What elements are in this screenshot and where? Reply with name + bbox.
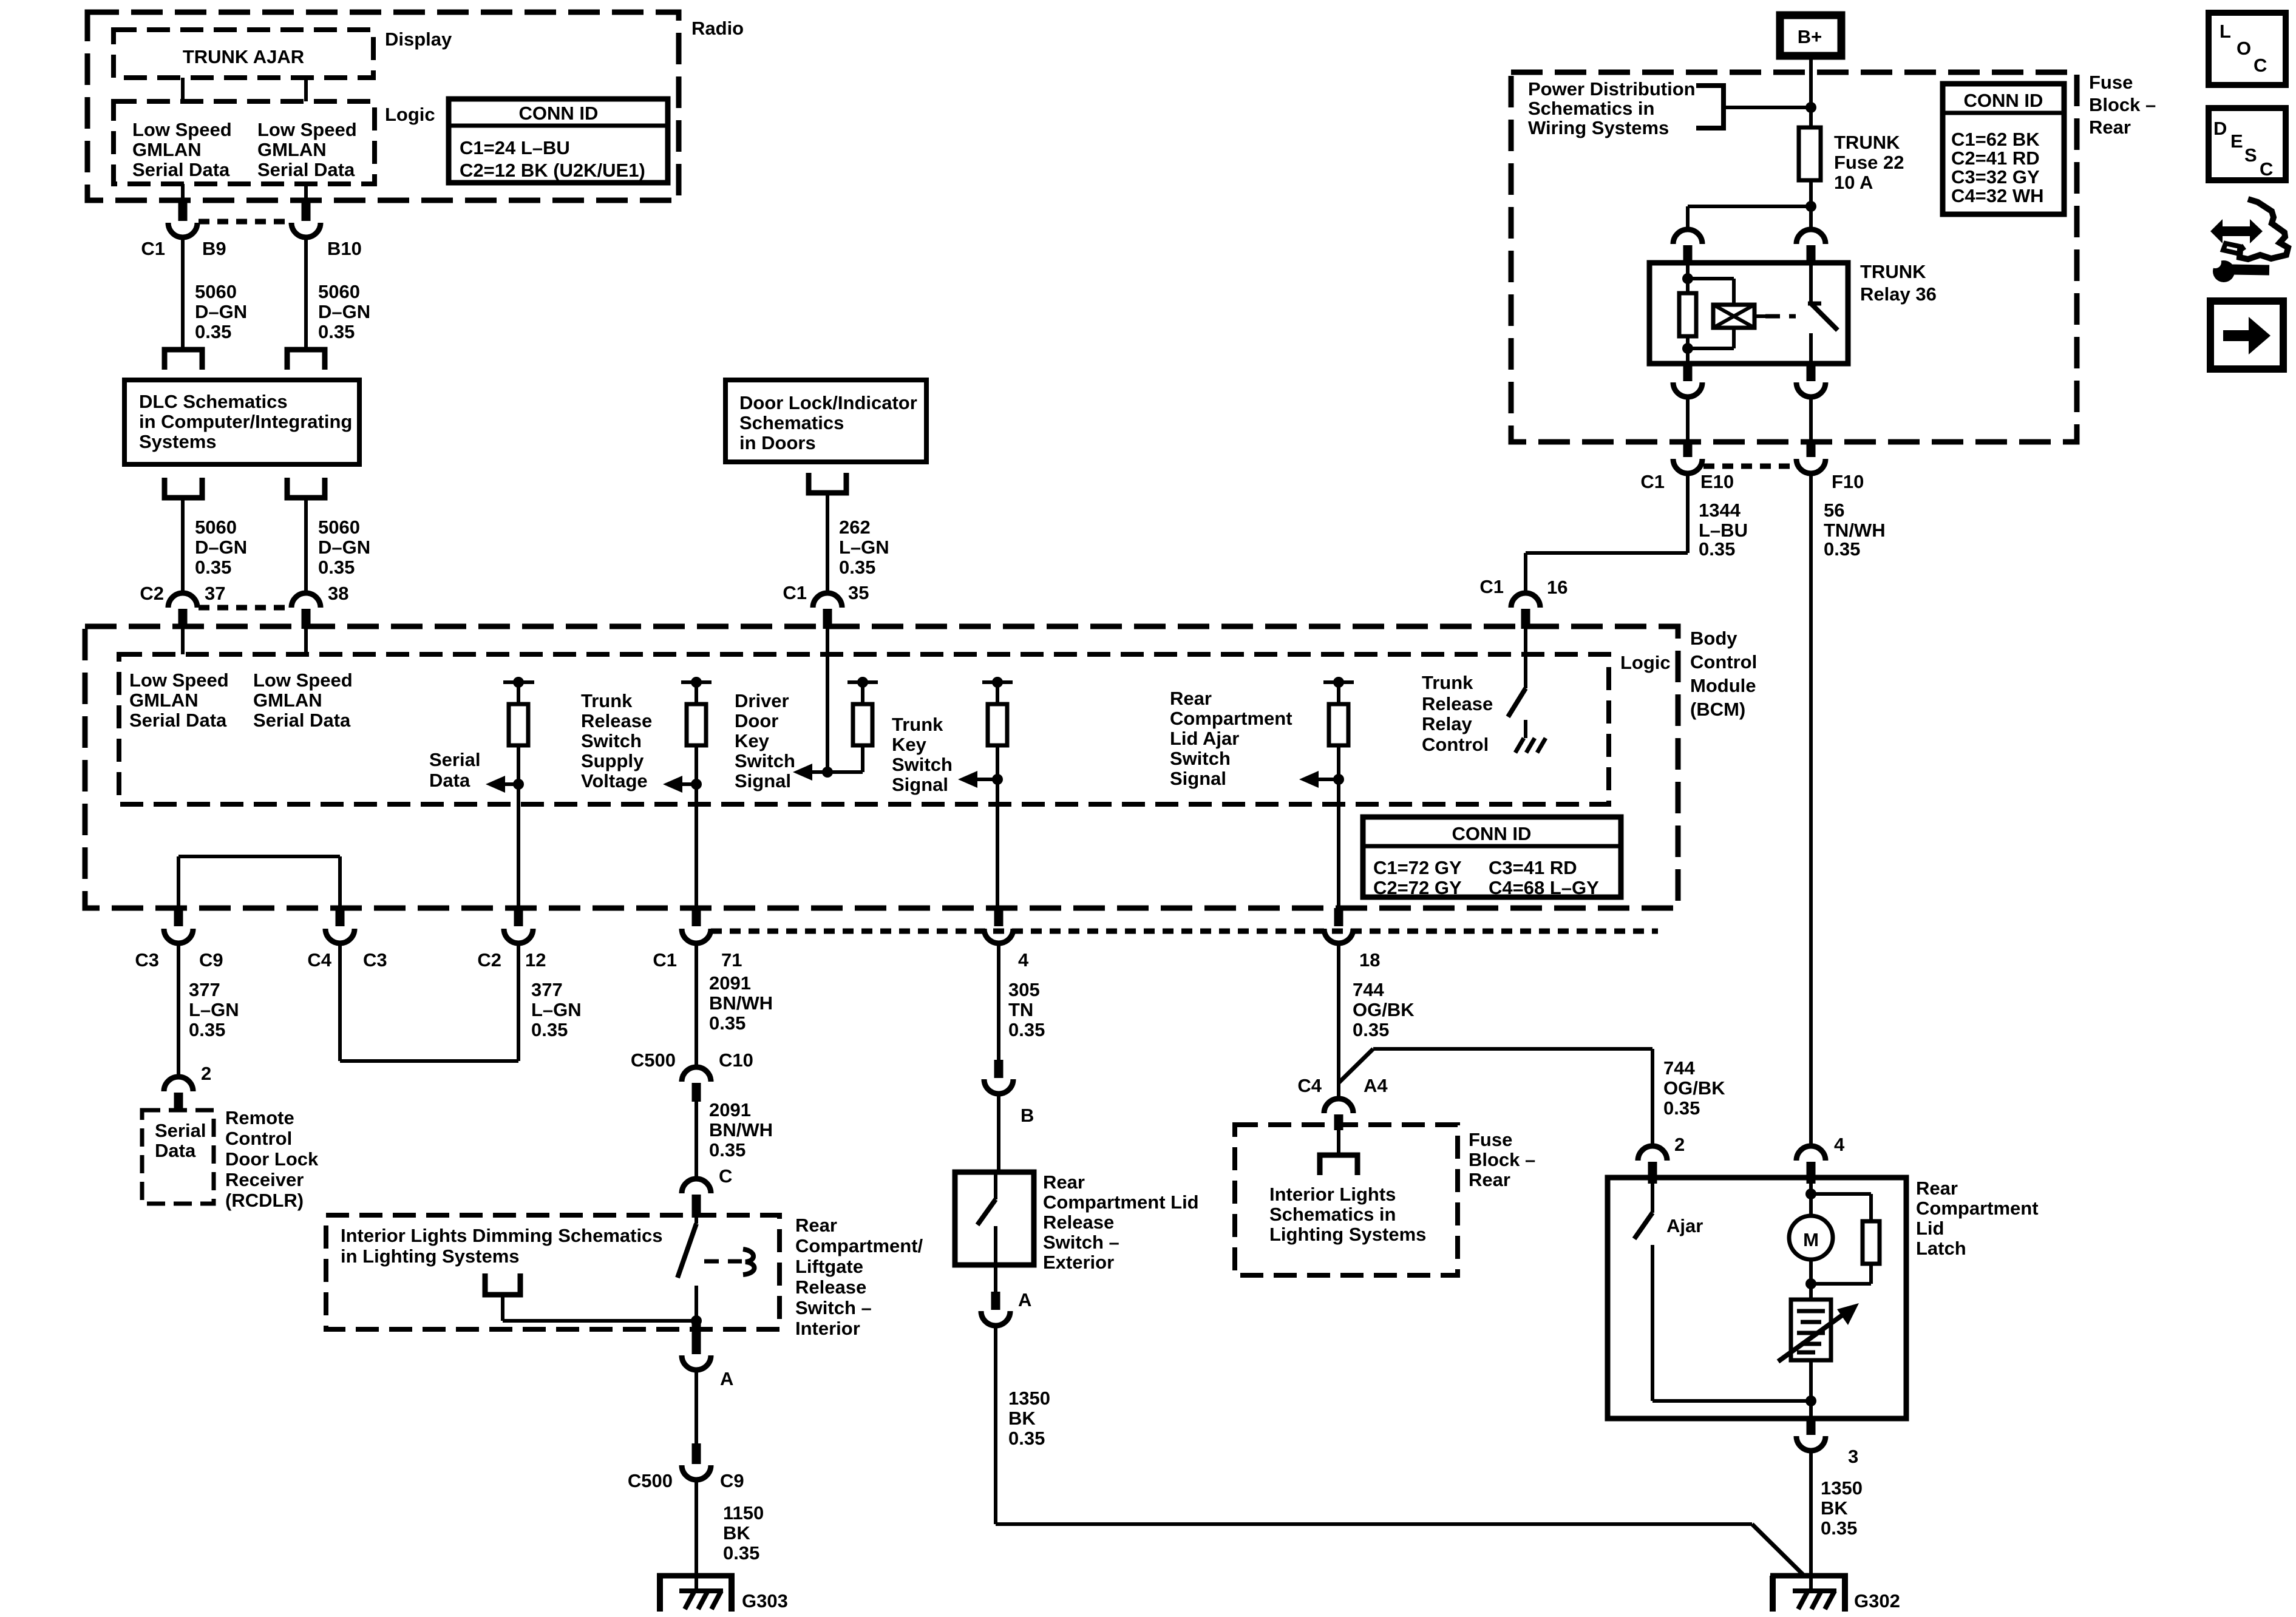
svg-text:Key: Key (892, 734, 927, 755)
svg-text:Compartment: Compartment (1170, 708, 1292, 729)
wire 1350 BK exterior (996, 1326, 1050, 1524)
wire B+ stem (1805, 59, 1816, 127)
Door Lock Indicator box (725, 380, 926, 462)
svg-text:OG/BK: OG/BK (1663, 1077, 1725, 1099)
svg-text:Schematics: Schematics (739, 412, 844, 433)
connector pin B10 (291, 200, 362, 259)
svg-text:Signal: Signal (1170, 768, 1226, 789)
wire fuse to junction (1805, 180, 1816, 212)
svg-text:C9: C9 (720, 1470, 744, 1491)
DLC Schematics box (124, 380, 359, 464)
wire radio display to logic stub right (304, 78, 308, 101)
svg-text:0.35: 0.35 (318, 321, 355, 342)
svg-text:S: S (2244, 144, 2257, 166)
wire dimming to switch (503, 1295, 702, 1326)
svg-text:5060: 5060 (318, 517, 360, 538)
svg-text:C3=41 RD: C3=41 RD (1489, 857, 1577, 878)
wire 262 L-GN (827, 493, 889, 595)
relay bottom pin left (1673, 364, 1702, 397)
wire 2091 BN/WH upper (696, 943, 773, 1070)
svg-text:744: 744 (1353, 979, 1384, 1000)
svg-text:2: 2 (1674, 1134, 1685, 1155)
svg-text:Release: Release (1043, 1212, 1114, 1233)
svg-text:GMLAN: GMLAN (129, 690, 199, 711)
wire junction to relay branches (1688, 206, 1811, 232)
svg-text:Fuse 22: Fuse 22 (1834, 152, 1904, 173)
svg-text:C4: C4 (1297, 1075, 1322, 1096)
svg-text:in Doors: in Doors (739, 432, 816, 453)
BCM logic dashed box (119, 652, 1671, 804)
svg-text:Trunk: Trunk (892, 714, 943, 735)
svg-text:C3: C3 (363, 949, 387, 971)
svg-text:C3=32 GY: C3=32 GY (1951, 166, 2040, 188)
wire A4 into fuse block (1337, 1129, 1340, 1155)
svg-text:Trunk: Trunk (1422, 672, 1473, 693)
svg-text:35: 35 (848, 582, 869, 603)
svg-text:Serial Data: Serial Data (132, 159, 230, 180)
svg-text:TRUNK: TRUNK (1860, 261, 1926, 282)
svg-text:Schematics in: Schematics in (1528, 98, 1654, 119)
connector C1 pin 18 (1324, 908, 1380, 971)
svg-text:A4: A4 (1364, 1075, 1388, 1096)
svg-text:2091: 2091 (709, 1099, 751, 1120)
fuse TRUNK Fuse 22 10A (1799, 127, 1904, 193)
BCM trunk release supply arrow (581, 690, 702, 793)
BCM relay control switch (1508, 688, 1526, 717)
latch motor parallel resistor (1811, 1194, 1880, 1284)
radio logic text Low Speed GMLAN Serial Data right (257, 119, 357, 180)
svg-text:CONN ID: CONN ID (1964, 90, 2043, 111)
relay switch (1808, 265, 1838, 364)
wire B to exterior switch (997, 1094, 1000, 1172)
svg-text:Data: Data (429, 770, 470, 791)
wire 5060 D-GN right upper (306, 237, 370, 350)
BCM lid ajar arrow (1170, 688, 1344, 789)
svg-text:Fuse: Fuse (1469, 1129, 1512, 1150)
connector C1 pin E10 (1640, 439, 1734, 492)
svg-text:2: 2 (201, 1063, 211, 1084)
BCM serial data jumper wire (178, 856, 340, 910)
svg-text:Signal: Signal (892, 774, 948, 795)
svg-text:Door: Door (735, 710, 778, 731)
connector C2 pin 37 (140, 583, 225, 629)
svg-text:B10: B10 (327, 238, 362, 259)
connector pin 3 (1796, 1419, 1858, 1467)
connector C1 pin B9 (141, 200, 226, 259)
svg-text:E: E (2230, 131, 2243, 152)
BCM relay control text (1422, 672, 1493, 755)
wire A to C500 (695, 1370, 698, 1446)
svg-text:B+: B+ (1798, 26, 1822, 47)
svg-text:12: 12 (525, 949, 546, 971)
svg-text:BN/WH: BN/WH (709, 1119, 773, 1141)
svg-text:2091: 2091 (709, 972, 751, 994)
svg-text:Compartment: Compartment (1916, 1198, 2039, 1219)
svg-text:Interior: Interior (795, 1318, 860, 1339)
DLC exit staple right (287, 478, 325, 498)
connector pin F10 (1796, 439, 1864, 492)
BCM text Low Speed GMLAN right (253, 670, 353, 731)
interior switch mechanical link (704, 1249, 755, 1275)
svg-text:Trunk: Trunk (581, 690, 633, 711)
svg-text:Release: Release (1422, 693, 1493, 714)
svg-text:C: C (2254, 55, 2267, 76)
svg-text:0.35: 0.35 (1353, 1019, 1389, 1040)
wire 305 TN (999, 943, 1045, 1062)
BCM trunk key arrow (892, 714, 1003, 795)
svg-text:0.35: 0.35 (839, 557, 875, 578)
svg-text:Wiring Systems: Wiring Systems (1528, 117, 1669, 138)
connector dashed link 37-38 (199, 605, 290, 611)
svg-text:A: A (720, 1368, 733, 1389)
svg-text:C2=72 GY: C2=72 GY (1373, 877, 1462, 898)
connector pin A exterior (981, 1265, 1031, 1326)
door lock exit staple (809, 473, 846, 493)
svg-text:5060: 5060 (195, 517, 237, 538)
svg-text:Low Speed: Low Speed (257, 119, 357, 140)
svg-text:Switch: Switch (735, 750, 795, 771)
connector C3 pin C9 (135, 908, 223, 971)
fuse block rear bottom dashed box (1235, 1125, 1535, 1275)
svg-text:Key: Key (735, 730, 770, 751)
svg-text:5060: 5060 (318, 281, 360, 302)
svg-text:Interior Lights: Interior Lights (1269, 1184, 1396, 1205)
svg-text:Switch: Switch (581, 730, 642, 751)
BCM trunk key resistor branch (982, 677, 1013, 779)
svg-text:C500: C500 (631, 1049, 676, 1071)
svg-text:0.35: 0.35 (195, 321, 231, 342)
svg-text:TRUNK AJAR: TRUNK AJAR (183, 46, 304, 67)
svg-text:C1: C1 (1640, 471, 1665, 492)
DLC entry staple left (165, 350, 202, 370)
DLC exit staple left (165, 478, 202, 498)
svg-text:Receiver: Receiver (225, 1169, 304, 1190)
relay coil (1688, 279, 1754, 348)
svg-text:Control: Control (225, 1128, 292, 1149)
svg-text:(RCDLR): (RCDLR) (225, 1190, 304, 1211)
svg-text:F10: F10 (1832, 471, 1864, 492)
svg-text:Low Speed: Low Speed (129, 670, 229, 691)
svg-text:0.35: 0.35 (195, 557, 231, 578)
svg-text:Switch –: Switch – (1043, 1232, 1119, 1253)
wire route to G302 (996, 1524, 1805, 1577)
svg-text:B: B (1021, 1105, 1034, 1126)
wire trunk key to connector 4 (996, 779, 999, 910)
connector dashed link B9-B10 (199, 219, 290, 225)
icon next arrow box (2210, 301, 2283, 369)
svg-text:4: 4 (1834, 1134, 1845, 1155)
svg-text:262: 262 (839, 517, 871, 538)
RCDLR label text (225, 1107, 319, 1211)
latch position sensor (1778, 1300, 1859, 1361)
svg-text:C9: C9 (199, 949, 223, 971)
BCM driver door key arrow (735, 690, 863, 792)
wire 2091 BN/WH lower (696, 1099, 773, 1181)
svg-text:C10: C10 (719, 1049, 753, 1071)
svg-text:C: C (2260, 158, 2273, 180)
svg-text:C4=68 L–GY: C4=68 L–GY (1489, 877, 1599, 898)
svg-text:56: 56 (1824, 500, 1844, 521)
svg-text:1344: 1344 (1699, 500, 1741, 521)
svg-text:0.35: 0.35 (709, 1139, 746, 1161)
interior switch symbol (678, 1218, 696, 1321)
relay coil terminal connector (1673, 229, 1702, 265)
BCM outer dashed box (85, 626, 1678, 908)
svg-text:0.35: 0.35 (1008, 1019, 1045, 1040)
svg-text:C2: C2 (140, 583, 164, 604)
svg-text:Block –: Block – (2089, 94, 2156, 115)
svg-text:4: 4 (1018, 949, 1029, 971)
svg-text:71: 71 (721, 949, 742, 971)
svg-text:Remote: Remote (225, 1107, 294, 1128)
radio display box TRUNK AJAR (114, 29, 452, 78)
svg-text:C1: C1 (1479, 576, 1504, 597)
svg-text:0.35: 0.35 (709, 1012, 746, 1034)
svg-text:Exterior: Exterior (1043, 1252, 1114, 1273)
connector pin A interior (682, 1321, 733, 1389)
connector pin 4 latch (1796, 1134, 1845, 1184)
svg-text:38: 38 (328, 583, 348, 604)
svg-text:37: 37 (205, 583, 225, 604)
svg-text:Rear: Rear (1043, 1171, 1085, 1193)
fuse block rear top dashed box (1511, 72, 2156, 442)
svg-text:C1: C1 (783, 582, 807, 603)
rear compartment lid release switch exterior box (955, 1172, 1034, 1265)
power distribution bracket (1696, 86, 1724, 128)
wire 377 L-GN right (340, 943, 582, 1061)
svg-text:OG/BK: OG/BK (1353, 999, 1415, 1020)
svg-text:L: L (2220, 21, 2231, 42)
svg-text:Serial: Serial (429, 749, 480, 770)
svg-text:18: 18 (1359, 949, 1380, 971)
TRUNK relay 36 box (1649, 261, 1937, 364)
svg-text:0.35: 0.35 (318, 557, 355, 578)
icon wrench panel (2209, 199, 2288, 282)
connector C1 pin 4 (984, 908, 1029, 971)
power distribution text (1528, 78, 1696, 138)
svg-text:O: O (2237, 38, 2251, 59)
svg-text:Switch: Switch (892, 754, 953, 775)
interior lights schematics text (1269, 1184, 1426, 1245)
svg-text:Voltage: Voltage (581, 770, 648, 792)
svg-text:C1=24 L–BU: C1=24 L–BU (460, 137, 570, 158)
svg-text:Compartment Lid: Compartment Lid (1043, 1192, 1199, 1213)
svg-text:0.35: 0.35 (1663, 1097, 1700, 1119)
ground G302 (1770, 1576, 1900, 1612)
icon DESC box (2209, 108, 2286, 180)
svg-text:(BCM): (BCM) (1690, 699, 1745, 720)
svg-text:744: 744 (1663, 1057, 1695, 1079)
svg-text:Control: Control (1690, 651, 1757, 673)
svg-text:Block –: Block – (1469, 1149, 1535, 1170)
BCM lid ajar resistor branch (1323, 677, 1354, 779)
BCM text Low Speed GMLAN left (129, 670, 229, 731)
connector C1 dashed line BCM bottom (711, 929, 1658, 934)
svg-text:Release: Release (795, 1276, 866, 1298)
relay mechanical dashed link (1756, 314, 1796, 318)
svg-text:0.35: 0.35 (1699, 538, 1735, 560)
svg-text:377: 377 (189, 979, 220, 1000)
wire 1150 BK (696, 1480, 764, 1591)
relay bottom pin right (1796, 364, 1826, 397)
svg-text:Rear: Rear (1916, 1178, 1958, 1199)
svg-text:Lid Ajar: Lid Ajar (1170, 728, 1239, 749)
svg-text:GMLAN: GMLAN (257, 139, 327, 160)
BCM CONN ID box (1363, 817, 1621, 898)
svg-text:Logic: Logic (1620, 652, 1671, 673)
svg-text:C3: C3 (135, 949, 159, 971)
BCM trunk release supply resistor branch (681, 677, 712, 784)
svg-text:C500: C500 (628, 1470, 673, 1491)
svg-text:Body: Body (1690, 628, 1737, 649)
svg-text:Rear: Rear (1469, 1169, 1510, 1190)
svg-text:5060: 5060 (195, 281, 237, 302)
svg-text:C4: C4 (307, 949, 331, 971)
rear compartment lid latch box (1608, 1178, 2039, 1419)
svg-text:Rear: Rear (795, 1215, 837, 1236)
DLC entry staple right (287, 350, 325, 370)
svg-text:BN/WH: BN/WH (709, 992, 773, 1014)
svg-text:Door Lock: Door Lock (225, 1148, 319, 1170)
radio logic box (114, 101, 435, 184)
connector pin 2 RCDLR (164, 1063, 211, 1112)
fuse block entry staple (1320, 1155, 1357, 1175)
svg-text:CONN ID: CONN ID (519, 103, 599, 124)
svg-text:377: 377 (531, 979, 563, 1000)
wire radio display to logic stub left (181, 78, 185, 101)
svg-text:Control: Control (1422, 734, 1489, 755)
radio CONN ID box (449, 99, 668, 183)
svg-text:TRUNK: TRUNK (1834, 132, 1900, 153)
svg-text:E10: E10 (1700, 471, 1734, 492)
svg-text:L–GN: L–GN (531, 999, 582, 1020)
connector C500 pin C10 (631, 1049, 753, 1102)
latch bottom wire (1652, 1360, 1816, 1419)
svg-text:Signal: Signal (735, 770, 791, 792)
svg-text:Liftgate: Liftgate (795, 1256, 863, 1277)
svg-text:3: 3 (1848, 1446, 1858, 1467)
wire lid ajar to connector 18 (1337, 779, 1340, 910)
radio module dashed box (87, 12, 744, 200)
latch position sensor wire (1809, 1284, 1813, 1300)
relay coil resistor (1679, 265, 1696, 364)
svg-text:C1=72 GY: C1=72 GY (1373, 857, 1462, 878)
svg-text:G303: G303 (742, 1590, 788, 1612)
svg-text:Relay 36: Relay 36 (1860, 283, 1937, 305)
svg-text:GMLAN: GMLAN (253, 690, 322, 711)
svg-text:Ajar: Ajar (1666, 1215, 1703, 1236)
wire serial data to C2-12 (517, 784, 520, 910)
svg-text:Serial Data: Serial Data (129, 710, 227, 731)
icon LOC box (2209, 13, 2286, 85)
wire 5060 D-GN left upper (183, 237, 247, 350)
svg-text:Power Distribution: Power Distribution (1528, 78, 1696, 100)
svg-text:Display: Display (385, 29, 452, 50)
svg-text:Data: Data (155, 1140, 196, 1161)
svg-text:Serial: Serial (155, 1120, 206, 1141)
svg-text:305: 305 (1008, 979, 1040, 1000)
wire relay to fuse box edge left (1686, 397, 1690, 441)
svg-text:0.35: 0.35 (531, 1019, 568, 1040)
svg-text:Systems: Systems (139, 431, 217, 452)
wire into BCM logic right (304, 629, 308, 654)
wire 744 OG/BK (1339, 943, 1415, 1100)
wire relay to fuse box edge right (1809, 397, 1813, 441)
svg-text:D–GN: D–GN (318, 537, 370, 558)
svg-text:Switch: Switch (1170, 748, 1231, 769)
ground G303 (657, 1576, 788, 1612)
svg-text:Lighting Systems: Lighting Systems (1269, 1224, 1426, 1245)
svg-text:Radio: Radio (691, 18, 744, 39)
svg-text:1150: 1150 (723, 1502, 764, 1524)
svg-text:0.35: 0.35 (189, 1019, 225, 1040)
connector C1 pin 16 (1479, 576, 1567, 629)
svg-text:Low Speed: Low Speed (253, 670, 353, 691)
svg-text:L–GN: L–GN (839, 537, 889, 558)
BCM serial data arrow (429, 749, 524, 793)
svg-text:1350: 1350 (1821, 1477, 1863, 1499)
connector C4 pin A4 (1297, 1075, 1388, 1130)
connector C1 pin 35 (783, 582, 869, 629)
svg-text:Supply: Supply (581, 750, 644, 771)
relay switch terminal connector (1796, 229, 1826, 265)
svg-text:Serial Data: Serial Data (253, 710, 351, 731)
svg-text:BK: BK (1821, 1497, 1848, 1519)
svg-text:1350: 1350 (1008, 1388, 1050, 1409)
wire 5060 D-GN right lower (306, 498, 370, 594)
radio logic text Low Speed GMLAN Serial Data left (132, 119, 232, 180)
interior dimming staple (485, 1273, 520, 1295)
svg-text:Schematics in: Schematics in (1269, 1204, 1396, 1225)
svg-text:in Lighting Systems: in Lighting Systems (341, 1246, 520, 1267)
svg-text:Latch: Latch (1916, 1238, 1966, 1259)
wire C1-16 into BCM (1524, 629, 1527, 688)
connector C4 pin C3 (307, 908, 387, 971)
svg-text:D–GN: D–GN (195, 537, 247, 558)
RCDLR serial data dashed box (142, 1110, 214, 1204)
svg-text:G302: G302 (1854, 1590, 1900, 1612)
wire 56 TN/WH (1811, 473, 1886, 1147)
svg-text:BK: BK (1008, 1408, 1036, 1429)
svg-text:L–GN: L–GN (189, 999, 239, 1020)
svg-text:Release: Release (581, 710, 652, 731)
svg-text:C1: C1 (141, 238, 165, 259)
svg-text:BK: BK (723, 1522, 750, 1544)
latch motor M (1789, 1216, 1833, 1289)
connector pin 2 latch (1638, 1070, 1685, 1184)
wire driver door key into BCM (822, 629, 833, 778)
wire power distribution to B+ stem (1724, 106, 1811, 109)
connector C500 pin C9 (628, 1443, 744, 1491)
svg-text:TN/WH: TN/WH (1824, 520, 1886, 541)
svg-text:in Computer/Integrating: in Computer/Integrating (139, 411, 352, 432)
connector C2 pin 12 (477, 908, 546, 971)
latch motor branch wire (1805, 1184, 1816, 1217)
svg-text:Low Speed: Low Speed (132, 119, 232, 140)
BCM relay control ground (1515, 720, 1546, 753)
svg-text:Module: Module (1690, 675, 1756, 696)
svg-text:Door Lock/Indicator: Door Lock/Indicator (739, 392, 917, 413)
connector C1 pin 71 (653, 908, 742, 971)
wire supply to C1-71 (695, 784, 698, 910)
svg-text:Serial Data: Serial Data (257, 159, 355, 180)
svg-text:A: A (1018, 1289, 1031, 1310)
svg-text:L–BU: L–BU (1699, 520, 1748, 541)
wire 1344 L-BU (1526, 473, 1748, 595)
wire radio logic to box edge right (304, 184, 308, 203)
svg-text:C1: C1 (653, 949, 677, 971)
wire 1350 BK latch (1811, 1451, 1863, 1591)
